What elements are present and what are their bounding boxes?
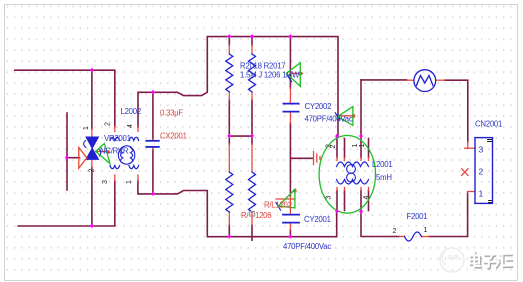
svg-text:R2018 R2017: R2018 R2017 bbox=[240, 62, 285, 71]
svg-text:1.5M J 1206 1/4W: 1.5M J 1206 1/4W bbox=[240, 71, 300, 80]
svg-text:L2001: L2001 bbox=[372, 160, 392, 169]
svg-text:2: 2 bbox=[479, 167, 484, 177]
svg-text:4: 4 bbox=[127, 124, 134, 128]
svg-text:1: 1 bbox=[424, 227, 428, 234]
svg-text:3: 3 bbox=[326, 196, 333, 200]
svg-text:CY2002: CY2002 bbox=[305, 102, 332, 111]
svg-text:5mH: 5mH bbox=[376, 173, 392, 182]
svg-text:2: 2 bbox=[393, 228, 397, 235]
svg-text:L2002: L2002 bbox=[121, 107, 141, 116]
svg-text:470PF/400Vac: 470PF/400Vac bbox=[283, 242, 331, 251]
svg-text:1: 1 bbox=[83, 126, 90, 130]
svg-text:3: 3 bbox=[479, 145, 484, 155]
svg-text:1: 1 bbox=[359, 144, 366, 148]
svg-text:0.33µF: 0.33µF bbox=[160, 109, 183, 118]
svg-text:F2001: F2001 bbox=[407, 212, 428, 221]
svg-text:VR2001: VR2001 bbox=[104, 134, 131, 143]
svg-text:1206: 1206 bbox=[255, 211, 271, 220]
svg-text:NC/RVR: NC/RVR bbox=[100, 147, 129, 156]
svg-text:4: 4 bbox=[363, 196, 370, 200]
svg-text:R/L1202: R/L1202 bbox=[264, 201, 292, 210]
svg-text:CN2001: CN2001 bbox=[475, 120, 502, 129]
svg-text:CX2001: CX2001 bbox=[160, 132, 187, 141]
svg-text:CY2001: CY2001 bbox=[304, 215, 331, 224]
svg-text:R/: R/ bbox=[241, 211, 249, 220]
svg-text:1: 1 bbox=[352, 144, 359, 148]
svg-text:1: 1 bbox=[126, 180, 133, 184]
svg-text:2: 2 bbox=[105, 122, 112, 126]
svg-text:2: 2 bbox=[330, 145, 337, 149]
svg-text:3: 3 bbox=[102, 180, 109, 184]
svg-text:2: 2 bbox=[89, 169, 96, 173]
svg-text:1: 1 bbox=[479, 189, 484, 199]
svg-text:470PF/400Vac: 470PF/400Vac bbox=[305, 115, 353, 124]
